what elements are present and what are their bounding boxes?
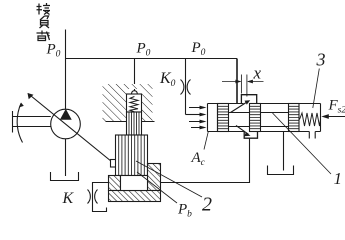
svg-text:1: 1 bbox=[334, 169, 343, 188]
stroking piston 2 (striped) bbox=[116, 135, 148, 176]
orifice K0 arcs bbox=[181, 80, 191, 95]
label pointer line for 2 bbox=[136, 161, 202, 197]
wire: Pb chamber to valve lower port bbox=[161, 138, 250, 182]
wire: pump suction to tank bbox=[65, 139, 67, 176]
pilot valve guide block (hatched) bbox=[103, 84, 155, 122]
small square pivot on piston bbox=[111, 160, 118, 168]
label pointer line for 3 bbox=[313, 69, 320, 109]
compensator valve 1 body bbox=[208, 104, 321, 132]
drive shaft bbox=[13, 111, 51, 133]
spool stem bbox=[229, 113, 289, 127]
svg-text:P0: P0 bbox=[46, 42, 61, 60]
pump triangle (flow direction) bbox=[61, 110, 71, 119]
chamber Pb (white) bbox=[121, 176, 148, 191]
label pointer line for Pb bbox=[137, 172, 177, 203]
orifice K pipe bbox=[93, 183, 109, 212]
wire: pump discharge line up to load bbox=[65, 30, 67, 110]
pilot spring (zigzag) bbox=[130, 97, 138, 112]
wire: middle drop to pilot ball bbox=[134, 59, 136, 91]
svg-text:Ac: Ac bbox=[191, 150, 206, 168]
spool land B (striped) bbox=[250, 104, 261, 132]
flow arrows into control chamber Ac bbox=[189, 106, 207, 130]
orifice K arcs bbox=[88, 190, 98, 204]
lower metering port bbox=[244, 132, 257, 139]
pilot rod (striped) bbox=[127, 112, 142, 135]
spool land C (striped) bbox=[289, 104, 300, 132]
svg-text:3: 3 bbox=[316, 50, 326, 70]
svg-text:Fs2: Fs2 bbox=[328, 98, 345, 116]
variable displacement arrow (long diagonal to stroking piston) bbox=[28, 94, 112, 162]
tank (under valve) bbox=[268, 166, 294, 175]
svg-text:P0: P0 bbox=[136, 41, 151, 59]
upper orifice arrow bbox=[231, 102, 248, 113]
lower orifice arrow bbox=[236, 126, 249, 135]
dimension x extension lines bbox=[241, 75, 247, 97]
pilot ball bbox=[132, 91, 138, 97]
wire: main P0 horizontal line bbox=[66, 58, 238, 60]
spring chamber vent bbox=[309, 132, 315, 139]
pilot spring box bbox=[127, 94, 142, 112]
wire: right drop (thick) to upper port ledge bbox=[236, 59, 238, 104]
rotation arc arrow bbox=[17, 104, 22, 143]
cylinder body (hatched) bbox=[109, 164, 161, 202]
svg-text:K0: K0 bbox=[159, 70, 176, 89]
wire: middle chamber drain to tank bbox=[283, 132, 285, 171]
force Fs2 arrow bbox=[328, 116, 345, 118]
dimension x arrows bbox=[222, 81, 264, 83]
upper metering port bbox=[241, 95, 256, 104]
wire: K0 branch drop bbox=[185, 59, 187, 115]
wire: K0 line corner into valve bbox=[186, 114, 202, 116]
label pointer line for Ac bbox=[204, 132, 208, 150]
svg-text:x: x bbox=[253, 64, 262, 83]
valve spring bbox=[300, 113, 321, 126]
svg-text:K: K bbox=[62, 190, 75, 207]
label pointer line for 1 bbox=[273, 113, 332, 174]
svg-text:P0: P0 bbox=[191, 40, 206, 58]
svg-text:Pb: Pb bbox=[177, 202, 192, 220]
label 接负载 (vertical Chinese text, stylized) bbox=[37, 3, 51, 41]
tank (under pump) bbox=[51, 172, 79, 181]
spool land A (striped) bbox=[218, 104, 229, 132]
svg-text:2: 2 bbox=[202, 194, 212, 216]
pump P (circle) bbox=[51, 109, 81, 139]
